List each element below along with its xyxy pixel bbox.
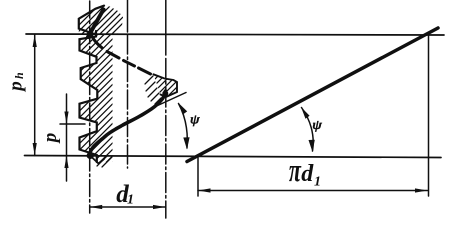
svg-text:ψ: ψ (190, 113, 200, 127)
wire left vertical extension x=198 (197, 158, 199, 197)
hatching fringe below right tooth (145, 76, 161, 104)
svg-text:ψ: ψ (312, 119, 322, 133)
dimension big psi arc (302, 108, 314, 152)
wire right vertical extension x=429 (428, 35, 430, 196)
wire screw axis center line (127, 0, 129, 32)
label pi*d1 (289, 153, 321, 189)
node junction blob top (87, 31, 94, 38)
arrowhead p bottom (outside, pointing up) (64, 156, 68, 169)
hatching broken-out patch above top line (72, 0, 126, 35)
helix hidden back half (thick dashed curve) (93, 39, 150, 75)
arrowhead pi*d1 right (415, 188, 428, 192)
wire left cylinder edge (dash-dot) (89, 1, 91, 213)
helix front visible half (thick curve) (90, 91, 166, 156)
svg-text:d: d (301, 161, 314, 187)
label d1 (116, 181, 134, 208)
wire right cylinder edge (dash-dot) (165, 0, 167, 55)
arrowhead p_h bottom (33, 143, 37, 156)
label p (40, 133, 61, 145)
wire top horizontal construction line (26, 34, 444, 35)
svg-text:π: π (289, 153, 302, 189)
hatching below bottom line fringe (97, 156, 112, 167)
arrowhead d1 right (153, 205, 166, 209)
dimension d1 line (90, 206, 166, 208)
svg-text:1: 1 (127, 193, 134, 208)
dimension p line (66, 94, 68, 181)
thread profile left teeth outline (79, 6, 104, 162)
hatching sectioned thread band (72, 35, 116, 164)
node junction blob helix end (162, 91, 168, 97)
svg-text:1: 1 (314, 174, 321, 189)
arrowhead small psi arc top (178, 103, 187, 115)
dimension pi*d1 line (198, 190, 428, 192)
svg-text:p: p (5, 81, 26, 93)
wire bottom horizontal construction line (25, 156, 442, 158)
svg-text:p: p (40, 133, 61, 145)
thread partial tooth below bottom line (90, 156, 104, 164)
arrowhead d1 left (90, 205, 103, 209)
helix upper turn start (thick curve top) (88, 10, 104, 38)
wire unwrapped helix hypotenuse (thick) (187, 28, 438, 162)
svg-text:h: h (12, 72, 26, 79)
arrowhead big psi arc top (301, 107, 310, 119)
node p extension line at y=124 (60, 123, 85, 125)
tooth on right side outline (153, 74, 177, 97)
label p_h (5, 72, 26, 93)
dimension small psi arc (179, 104, 188, 149)
wire tangent line at helix end (psi construction) (150, 93, 186, 110)
arrowhead p_h top (33, 35, 37, 48)
arrowhead big psi arc bottom (309, 140, 315, 152)
node junction blob bottom (87, 152, 94, 159)
arrowhead p top (outside, pointing down) (64, 112, 68, 125)
dimension p_h line (34, 35, 36, 156)
arrowhead small psi arc bottom (183, 137, 189, 149)
arrowhead pi*d1 left (198, 188, 211, 192)
hatching right tooth (148, 70, 180, 100)
